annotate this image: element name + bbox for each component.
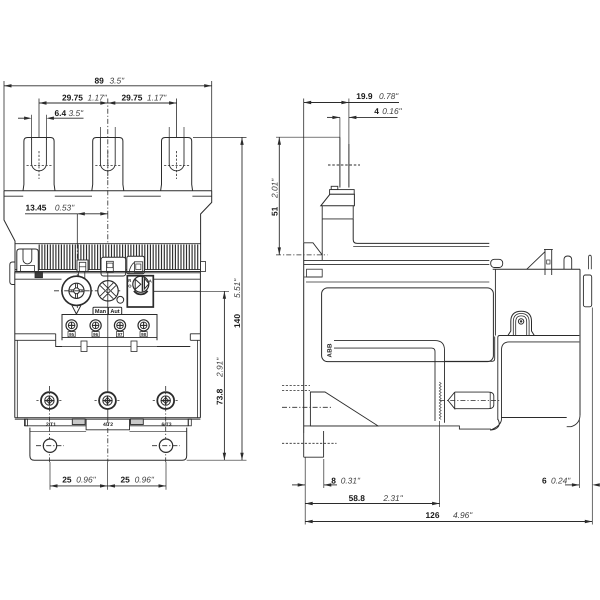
svg-text:3.5": 3.5" <box>69 108 85 118</box>
band end caps <box>24 419 27 426</box>
svg-text:6.4: 6.4 <box>55 108 67 118</box>
svg-text:89: 89 <box>95 75 105 85</box>
svg-text:2.01": 2.01" <box>270 178 280 199</box>
svg-text:5.51": 5.51" <box>232 278 242 298</box>
svg-text:A: A <box>149 279 152 284</box>
centerline housing split <box>107 272 109 418</box>
svg-text:6: 6 <box>542 475 547 485</box>
dim 8 <box>304 457 306 488</box>
slot extension lines fork1 <box>31 115 33 140</box>
capsule (coil) <box>448 392 494 409</box>
left tabs <box>307 269 323 277</box>
head block <box>321 194 355 206</box>
component center assembly on rib band <box>101 257 126 276</box>
forks (3 spade terminals) <box>23 138 55 191</box>
centerline extensions forks <box>38 99 40 138</box>
aux terminal block <box>62 315 157 341</box>
svg-text:0.53": 0.53" <box>55 202 75 212</box>
dial centerline vertical <box>76 214 78 244</box>
svg-text:126: 126 <box>426 510 440 520</box>
inner channel <box>334 341 445 423</box>
adjustment dial <box>62 276 91 305</box>
rod break dashes <box>328 164 360 166</box>
shelf steps beside aux block <box>15 333 56 335</box>
svg-text:4: 4 <box>374 106 379 116</box>
svg-text:29.75: 29.75 <box>62 93 83 103</box>
capsule centerline <box>440 400 500 402</box>
svg-text:3.5": 3.5" <box>110 75 126 85</box>
dim 140 vertical <box>193 136 247 138</box>
serrated strip <box>439 382 441 420</box>
rear block right edge <box>579 269 581 415</box>
DIN rail tab <box>583 275 591 307</box>
svg-text:2.31": 2.31" <box>382 493 403 503</box>
band middle deep section <box>86 419 129 430</box>
svg-text:0.96": 0.96" <box>76 474 96 484</box>
reset dial symbol <box>133 276 149 292</box>
head neck <box>322 206 353 219</box>
bracket holes <box>43 439 56 452</box>
reset box <box>127 276 153 307</box>
dim 73.8 vertical <box>200 290 229 292</box>
front chamfer <box>304 243 323 255</box>
rear block top <box>493 268 580 270</box>
projection dashed lines left side <box>282 385 310 387</box>
outline left edge <box>4 191 15 272</box>
tabs under aux block <box>81 341 87 352</box>
svg-text:6/T3: 6/T3 <box>161 422 171 428</box>
bottom left wedge <box>310 392 378 426</box>
small circle below test button <box>117 296 124 303</box>
claw foot at rear pipe bottom <box>490 417 501 430</box>
dim 13.45 dial offset <box>25 213 77 215</box>
solid line right of reset box <box>153 290 200 292</box>
small pin above DIN tab <box>589 255 592 269</box>
head cap <box>331 186 338 189</box>
keyhole arch <box>508 311 535 335</box>
dim 29.75 right <box>108 102 177 104</box>
bottom left foot piece <box>323 431 325 457</box>
svg-text:58.8: 58.8 <box>349 493 366 503</box>
svg-text:97: 97 <box>118 332 123 337</box>
small dark box under clip <box>35 272 43 278</box>
svg-text:25: 25 <box>121 474 131 484</box>
svg-text:98: 98 <box>141 332 146 337</box>
dim 25 right <box>108 485 167 487</box>
svg-text:8: 8 <box>331 475 336 485</box>
svg-text:73.8: 73.8 <box>215 388 225 405</box>
dim 126 <box>304 488 306 525</box>
main pole screws <box>36 400 62 402</box>
hook post <box>544 250 546 276</box>
dim 58.8 <box>439 421 441 507</box>
svg-text:95: 95 <box>69 332 74 337</box>
right foot claw <box>567 415 580 427</box>
lever rod <box>339 137 341 187</box>
svg-text:140: 140 <box>232 314 242 328</box>
dim 6 <box>578 420 580 488</box>
svg-text:2.91": 2.91" <box>215 357 225 378</box>
right edge step of rib band <box>201 262 206 272</box>
dim 6.4 slot width <box>18 117 28 119</box>
svg-text:0.96": 0.96" <box>135 474 155 484</box>
terminal band <box>15 417 201 419</box>
svg-text:29.75: 29.75 <box>122 93 143 103</box>
Man Aut labels <box>93 307 108 314</box>
step from panel to rear shelf <box>445 337 495 362</box>
outline top plate <box>4 190 212 192</box>
ribs pattern <box>39 245 198 270</box>
svg-text:0.31": 0.31" <box>341 475 361 485</box>
svg-text:0.16": 0.16" <box>382 106 402 116</box>
outline right edge <box>201 191 212 272</box>
rounded tab at body end <box>491 259 503 267</box>
middle centerline vertical <box>107 99 109 214</box>
svg-text:0.24": 0.24" <box>551 475 571 485</box>
dim 19.9 <box>304 102 349 104</box>
svg-text:51: 51 <box>270 206 280 216</box>
rib band outline <box>15 243 201 245</box>
band side sections <box>25 425 86 427</box>
side screw centerlines <box>48 386 50 462</box>
rear bottom <box>502 417 567 419</box>
svg-text:25: 25 <box>62 474 72 484</box>
svg-text:R: R <box>128 278 131 283</box>
aux screws <box>66 320 77 331</box>
rear pipe outer <box>498 336 580 421</box>
rear block left edge <box>494 269 496 335</box>
dim 51 vertical <box>276 136 340 138</box>
component small box on rib band <box>77 260 88 272</box>
dim 29.75 left <box>39 102 108 104</box>
dim 4 rod width <box>327 116 340 118</box>
rear pipe inner <box>502 342 580 418</box>
head legs <box>321 219 323 260</box>
svg-text:96: 96 <box>93 332 98 337</box>
svg-text:4.96": 4.96" <box>453 510 473 520</box>
centerline 51 bottom <box>276 254 328 256</box>
main panel rounded rect <box>322 288 494 362</box>
control section body <box>14 272 16 418</box>
svg-text:ABB: ABB <box>327 343 334 358</box>
dial pointer <box>72 305 81 314</box>
svg-text:2/T1: 2/T1 <box>46 422 56 428</box>
small cylinder <box>564 256 572 269</box>
test button cross screw <box>98 281 118 301</box>
mounting bracket <box>30 428 187 461</box>
left J-hook clip <box>10 262 15 285</box>
svg-text:0.78": 0.78" <box>379 91 399 101</box>
svg-text:1.17": 1.17" <box>88 93 108 103</box>
svg-text:1.17": 1.17" <box>147 93 167 103</box>
dim 25 left <box>49 462 51 490</box>
dial horizontal centerline <box>54 290 122 292</box>
svg-text:19.9: 19.9 <box>356 91 373 101</box>
body top plate lines <box>304 259 490 261</box>
svg-text:13.45: 13.45 <box>26 202 47 212</box>
bottom plate <box>304 426 491 429</box>
component right of center <box>127 256 145 274</box>
svg-text:4/T2: 4/T2 <box>103 422 113 428</box>
dim 89 / 3.5in horizontal <box>4 85 212 87</box>
band gray tabs <box>72 419 85 425</box>
left clip on rib band <box>17 249 39 272</box>
